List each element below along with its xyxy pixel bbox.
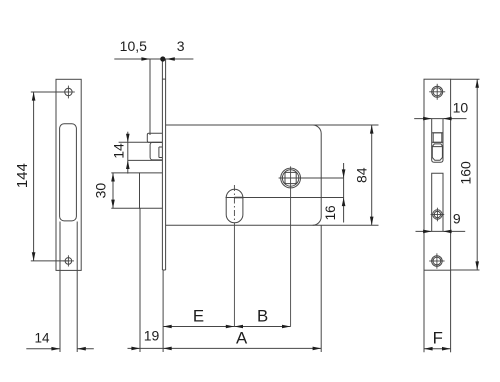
middle view: faceplate edge-on <box>161 59 163 270</box>
follower vertical centerline <box>290 166 292 326</box>
cylinder center tick <box>234 197 243 199</box>
dim 14 mid: top extension line <box>119 141 163 143</box>
cylinder hole centerline extension <box>233 224 235 327</box>
svg-text:84: 84 <box>353 167 369 183</box>
svg-text:E: E <box>193 307 204 326</box>
middle view: extension line below faceplate <box>162 270 164 352</box>
middle view: lock body <box>166 124 379 126</box>
latch body and bottom chamfer <box>432 147 442 161</box>
dim 16: lower extension line (cylinder center) <box>226 197 344 199</box>
middle view: cylinder protrusion <box>140 173 163 208</box>
dim 14 mid: dimension line <box>127 132 129 174</box>
dim 10,5 and 3: dimension line <box>114 58 193 60</box>
svg-text:16: 16 <box>323 205 338 220</box>
follower (spindle hole) <box>281 168 301 188</box>
dim 14 left: extension line b <box>76 222 78 353</box>
svg-text:10,5: 10,5 <box>120 38 147 54</box>
dim 14 left: dimension line left tail <box>26 348 60 350</box>
dim 16: dimension line <box>343 163 345 223</box>
dim 10: dimension line <box>414 118 466 120</box>
middle view: latch bolt head <box>150 142 162 160</box>
dim boundary dot <box>161 57 165 61</box>
dim F: right extension line <box>450 270 452 352</box>
dim F: dimension line <box>424 348 451 350</box>
left view: bottom screw hole <box>65 258 72 265</box>
left view: strike plate outline <box>56 79 81 270</box>
right view: lower window (deadbolt slot) <box>432 173 443 231</box>
svg-text:F: F <box>433 329 443 348</box>
left view: slot cutout <box>60 124 77 221</box>
dim 144: bottom extension line <box>31 260 69 262</box>
dim 30: bottom extension line <box>111 207 139 209</box>
svg-text:19: 19 <box>144 327 160 343</box>
svg-text:A: A <box>236 329 248 348</box>
right view: top screw hole <box>432 86 443 97</box>
left view: top screw hole <box>65 88 72 95</box>
svg-text:3: 3 <box>177 38 185 54</box>
latch bevel shoulder <box>432 144 443 147</box>
dim A: right extension line <box>320 225 322 352</box>
dim 84: dimension line <box>371 125 373 225</box>
dim 19: extension line (cylinder face) <box>139 208 141 352</box>
dim 14 left: extension line a <box>59 222 61 353</box>
dim 30: top extension line <box>111 172 139 174</box>
dim 144: dimension line <box>33 92 35 261</box>
cylinder hole (oval) <box>226 189 243 223</box>
right view: latch bolt front <box>432 132 443 134</box>
dim E/B: dimension line <box>163 326 291 328</box>
right view: bottom screw hole <box>432 256 443 267</box>
dim 14 mid: bottom extension line <box>128 159 163 161</box>
svg-text:10: 10 <box>453 100 469 116</box>
dim 30: dimension line <box>112 173 114 208</box>
svg-text:14: 14 <box>34 331 50 346</box>
follower horizontal centerline / dim 16 extension <box>279 177 344 179</box>
middle view: latch housing <box>147 133 162 142</box>
right view: middle hole <box>433 210 442 219</box>
dim 19/A: dimension line <box>128 347 322 349</box>
svg-text:14: 14 <box>111 143 127 159</box>
dim 9: dimension line <box>416 230 466 232</box>
dim 160: dimension line <box>476 79 478 270</box>
right view: latch window <box>432 119 443 162</box>
dim 160: top extension line <box>451 78 480 80</box>
dim F: left extension line <box>423 270 425 352</box>
cylinder hole centerline (dash-dot) <box>233 185 235 224</box>
dim 160: bottom extension line <box>451 269 480 271</box>
dim 14 left: dimension line right tail <box>77 348 94 350</box>
middle view: latch bevel edge <box>158 147 160 158</box>
right view: faceplate outline <box>424 79 451 270</box>
svg-text:160: 160 <box>457 161 473 185</box>
svg-text:9: 9 <box>453 210 461 226</box>
svg-text:B: B <box>257 307 268 326</box>
dim 10,5: extension line (latch face) <box>149 59 151 135</box>
dim 144: top extension line <box>31 91 69 93</box>
svg-text:144: 144 <box>14 163 31 188</box>
svg-text:30: 30 <box>93 183 109 199</box>
